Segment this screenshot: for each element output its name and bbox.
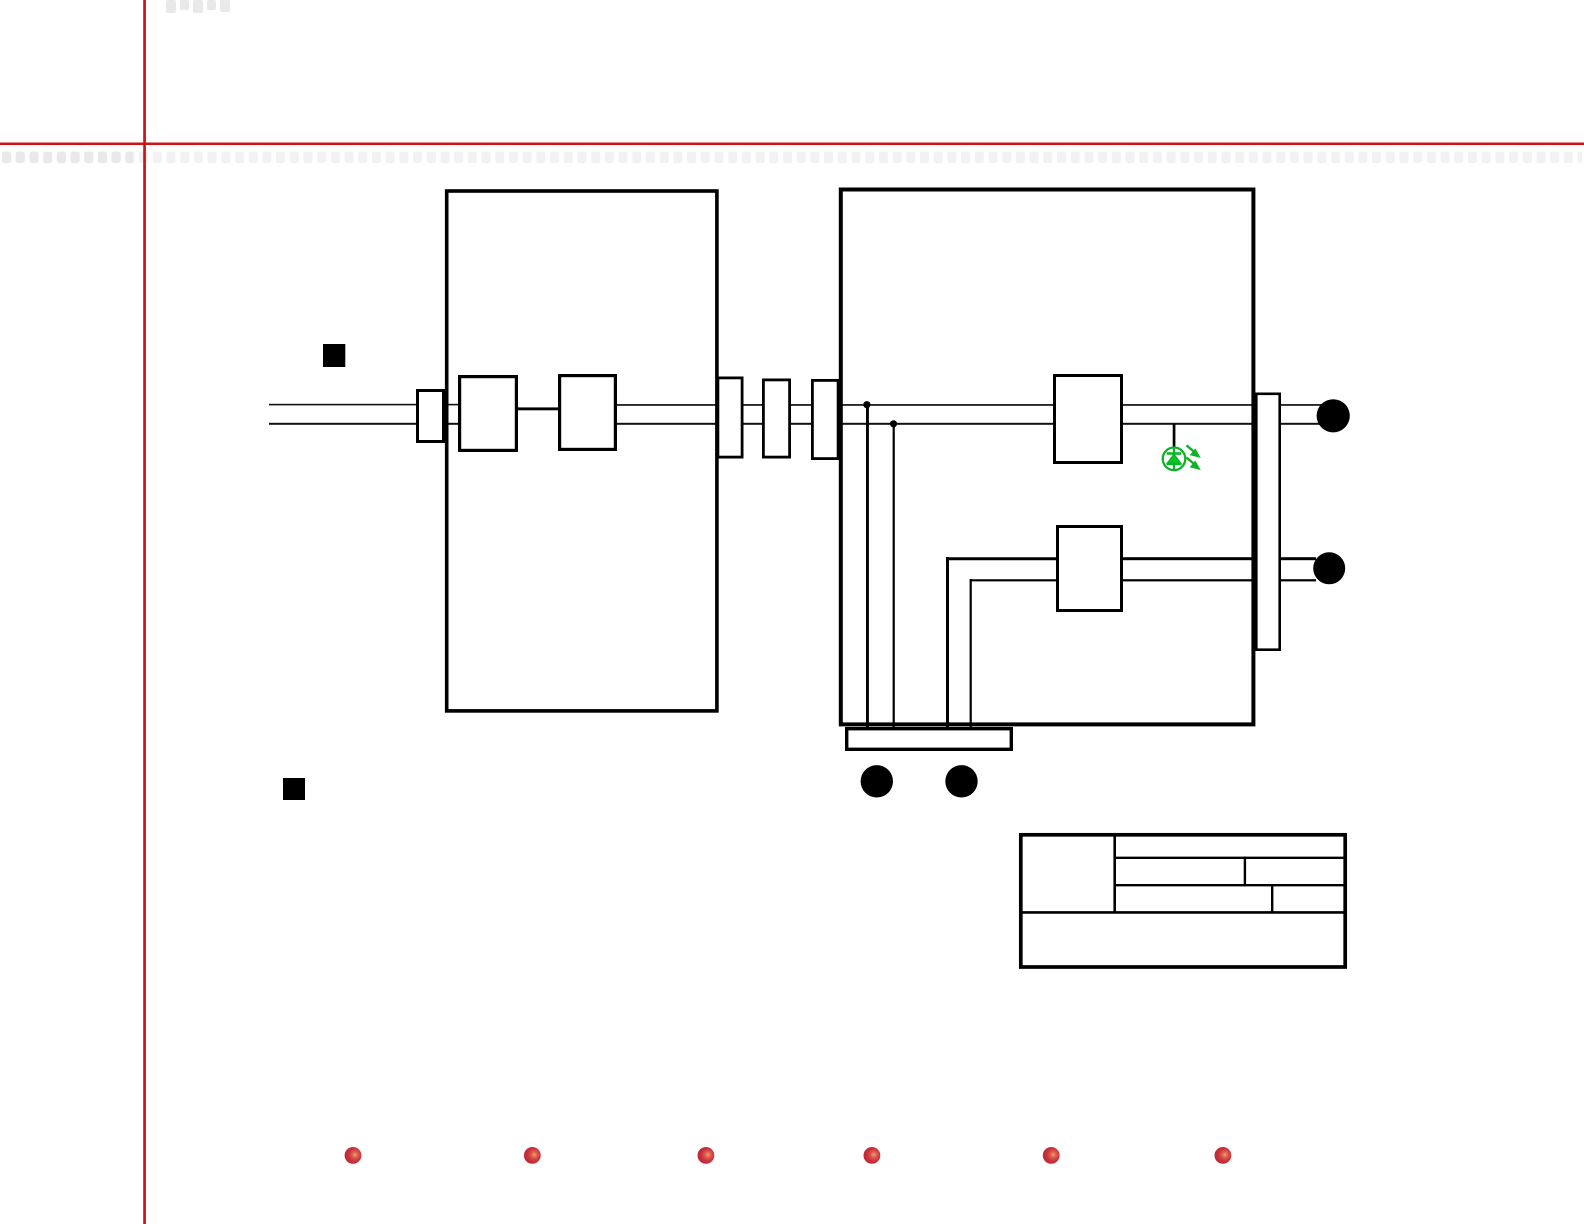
- component U1: [460, 377, 517, 451]
- faint dotted row right: [133, 152, 1582, 164]
- wire W1 vertical: [866, 405, 869, 727]
- wire W4 L-shape: [970, 579, 1058, 727]
- LED D1: [1163, 447, 1186, 470]
- module box M1: [447, 191, 717, 711]
- LED D1 arrows: [1187, 445, 1200, 469]
- connector J1: [718, 378, 742, 457]
- wire W2 vertical: [893, 424, 895, 727]
- red sphere P2: [524, 1147, 541, 1164]
- module box M2: [841, 190, 1254, 725]
- wire bottom pair thick right: [1121, 557, 1316, 560]
- junction dot node A: [863, 401, 870, 408]
- connector strip J5 bottom: [847, 729, 1012, 750]
- title block cell divider a: [1244, 857, 1246, 887]
- red sphere P6: [1215, 1147, 1232, 1164]
- title block divider horizontal main: [1019, 911, 1347, 914]
- connector J4 right edge: [1256, 394, 1279, 650]
- terminal circle T2: [1313, 552, 1345, 584]
- faint header text fragment: [166, 0, 230, 13]
- red grid line vertical: [143, 0, 146, 1224]
- red sphere P5: [1043, 1147, 1060, 1164]
- connector J2: [763, 380, 789, 457]
- LED D1 lead wire: [1173, 424, 1176, 448]
- marker square S2: [283, 778, 305, 800]
- marker square S1: [323, 344, 345, 367]
- title block row line 1: [1114, 857, 1348, 859]
- red sphere P1: [345, 1147, 362, 1164]
- wire link A-B: [514, 407, 560, 410]
- wire bottom pair thin right: [1121, 579, 1316, 581]
- red sphere P3: [698, 1147, 715, 1164]
- title block divider vertical: [1113, 833, 1116, 912]
- faint dotted row left: [2, 152, 133, 164]
- component U2: [560, 376, 616, 450]
- red grid line horizontal: [0, 143, 1584, 146]
- component U3: [1055, 376, 1122, 463]
- wire bus bottom left segment: [269, 423, 460, 425]
- wire bus top right segment: [615, 404, 1322, 406]
- connector J0: [418, 391, 444, 442]
- wire W3 L-shape: [946, 557, 1058, 727]
- title block frame: [1021, 835, 1345, 967]
- terminal circle T4: [945, 765, 977, 797]
- terminal circle T1: [1317, 399, 1350, 432]
- wire bus bottom right segment: [615, 423, 1322, 425]
- title block row line 2: [1114, 884, 1348, 886]
- connector J3: [812, 380, 838, 458]
- wire bus top left segment: [269, 404, 460, 406]
- junction dot node B: [890, 420, 897, 427]
- red sphere P4: [864, 1147, 881, 1164]
- terminal circle T3: [861, 765, 893, 797]
- component U4: [1058, 527, 1122, 611]
- title block cell divider b: [1271, 884, 1273, 914]
